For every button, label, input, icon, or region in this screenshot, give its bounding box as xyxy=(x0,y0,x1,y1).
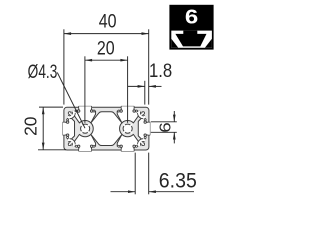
svg-text:6.35: 6.35 xyxy=(159,170,197,193)
svg-text:20: 20 xyxy=(97,37,115,59)
svg-text:20: 20 xyxy=(20,116,40,136)
svg-text:6: 6 xyxy=(185,5,198,28)
svg-text:Ø4.3: Ø4.3 xyxy=(28,61,58,83)
svg-text:40: 40 xyxy=(99,10,117,32)
svg-text:1.8: 1.8 xyxy=(149,60,172,81)
svg-text:6: 6 xyxy=(156,122,174,133)
